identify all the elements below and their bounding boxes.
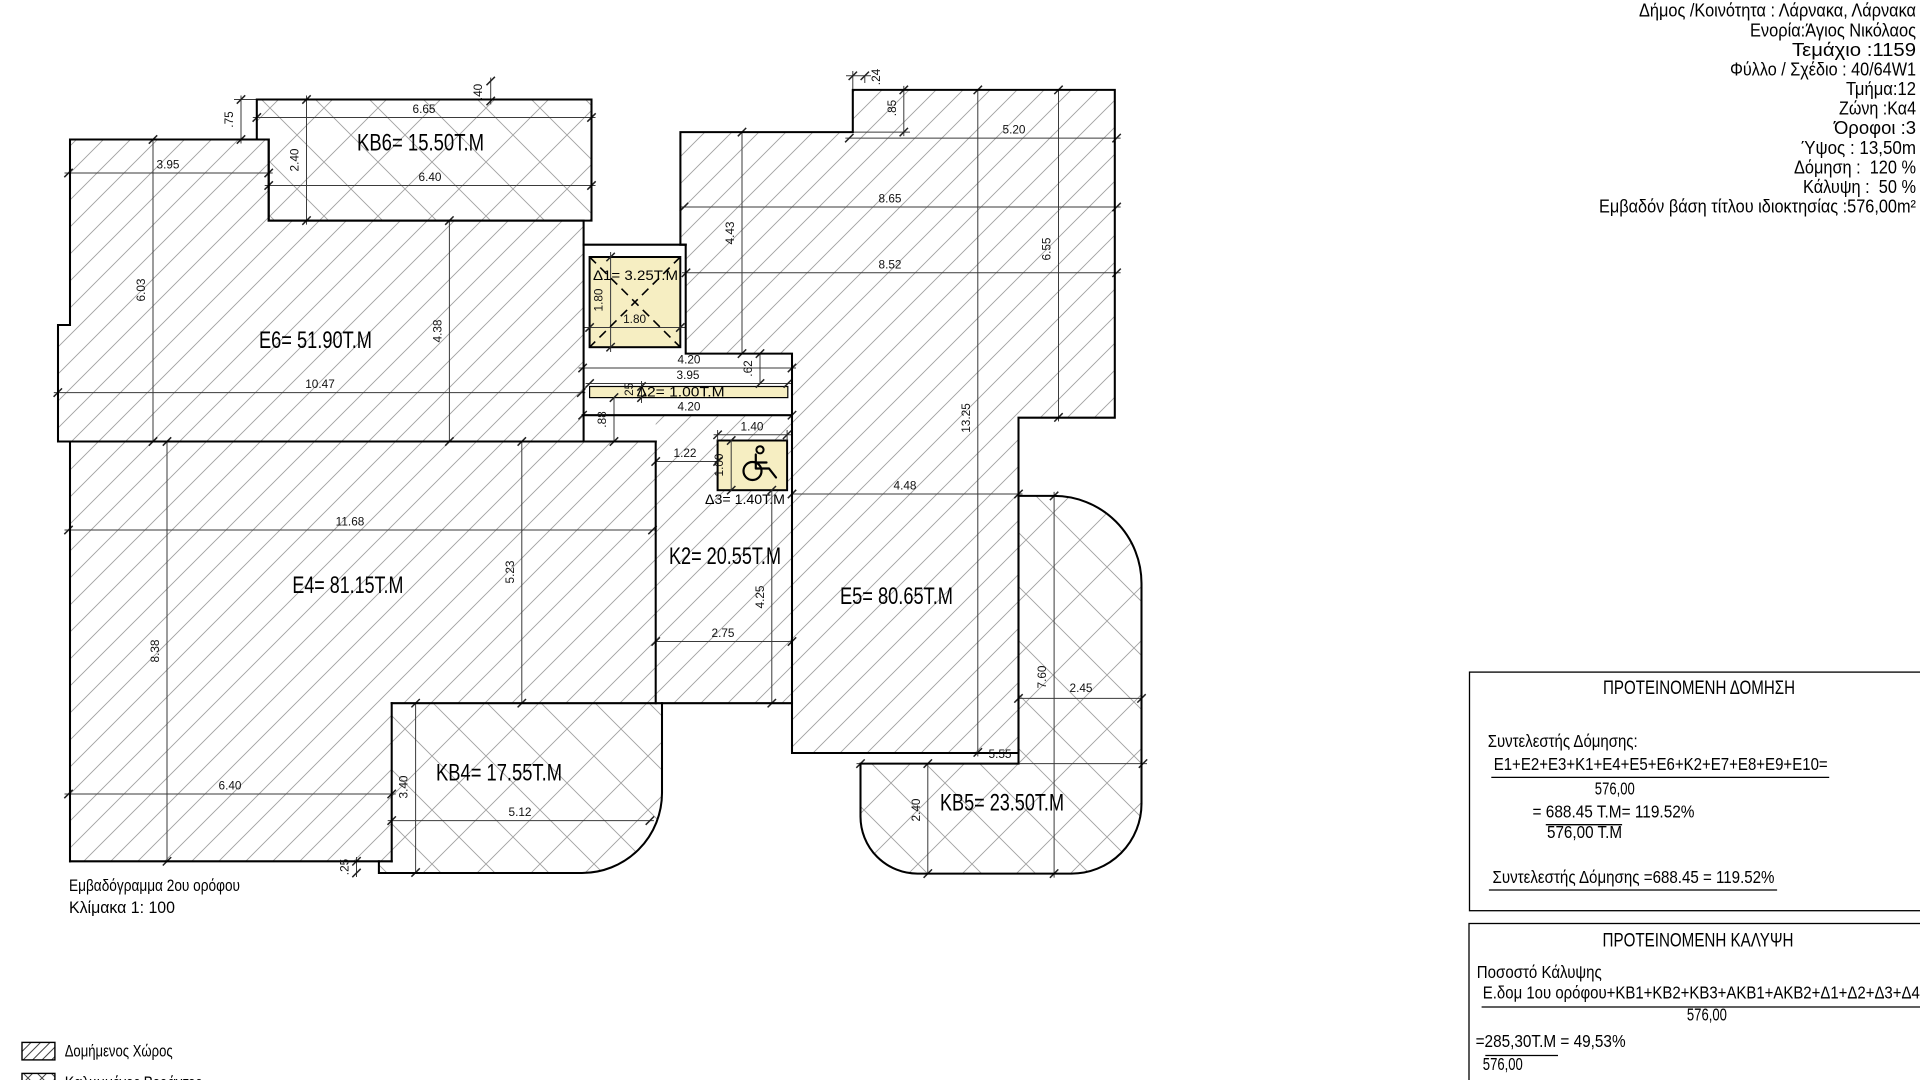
svg-text:3.40: 3.40: [397, 775, 411, 798]
svg-text:Τεμάχιο :1159: Τεμάχιο :1159: [1792, 40, 1916, 60]
room E4 bottom edge: [70, 860, 392, 862]
dim 1.80 horizontal line: [584, 327, 686, 329]
dim 6.40 E4 line: [65, 793, 396, 795]
svg-text:1.00: 1.00: [712, 453, 726, 476]
svg-text:4.20: 4.20: [678, 400, 701, 414]
svg-text:Καλυμμένες Βεράντες: Καλυμμένες Βεράντες: [65, 1073, 202, 1080]
dim 1.40 line: [714, 434, 792, 436]
svg-text:E5= 80.65T.M: E5= 80.65T.M: [840, 583, 953, 610]
dim 3.95 line: [65, 172, 273, 174]
svg-text:5.23: 5.23: [503, 560, 517, 583]
room E4 top edge: [584, 440, 656, 442]
dim .25 D2 line: [641, 381, 643, 403]
svg-text:K2= 20.55T.M: K2= 20.55T.M: [669, 543, 781, 570]
svg-text:576,00: 576,00: [1595, 778, 1635, 798]
svg-text:2.40: 2.40: [288, 148, 302, 171]
dim 1.00 line: [730, 441, 732, 491]
svg-text:8.38: 8.38: [148, 639, 162, 662]
svg-text:1.22: 1.22: [674, 446, 697, 460]
canopy D3 yellow box: [718, 441, 788, 491]
svg-text:Δήμος /Κοινότητα : Λάρνακα, Λά: Δήμος /Κοινότητα : Λάρνακα, Λάρνακα: [1639, 1, 1916, 21]
dim .40 line: [490, 78, 492, 105]
svg-text:3.95: 3.95: [677, 368, 700, 382]
region fills: [58, 90, 1142, 874]
svg-text:4.38: 4.38: [430, 319, 444, 342]
ext line KB6 top-left: [234, 99, 257, 101]
svg-text:3.95: 3.95: [157, 158, 180, 172]
canopy D1 yellow box: [590, 257, 681, 347]
svg-text:E4= 81.15T.M: E4= 81.15T.M: [292, 572, 403, 599]
room E4 hatch: [70, 442, 656, 862]
dim 3.95 D2 line: [586, 383, 792, 385]
svg-text:10.47: 10.47: [305, 377, 335, 391]
dim 6.40 KB6 line: [265, 185, 596, 187]
wheelchair icon in D3: [744, 446, 777, 480]
dim 10.47 line: [54, 392, 586, 394]
svg-text:Δομήμενος Χώρος: Δομήμενος Χώρος: [65, 1042, 173, 1061]
svg-text:KB6= 15.50T.M: KB6= 15.50T.M: [357, 129, 484, 156]
svg-text:.75: .75: [222, 111, 236, 128]
dim 8.52 line: [682, 272, 1121, 274]
room K2 hatch: [656, 415, 792, 703]
svg-text:6.40: 6.40: [219, 779, 242, 793]
svg-text:.25: .25: [622, 382, 636, 399]
svg-text:.88: .88: [595, 411, 609, 428]
svg-text:Ύψος : 13,50m: Ύψος : 13,50m: [1801, 138, 1916, 158]
svg-text:Όροφοι :3: Όροφοι :3: [1833, 118, 1916, 138]
calc boxes: [1469, 672, 1920, 1080]
dim 8.38 line: [166, 442, 168, 862]
veranda KB5 outline: [861, 496, 1142, 874]
ext line .85 base: [853, 131, 910, 133]
svg-text:Συντελεστής Δόμησης =688.45 =: Συντελεστής Δόμησης =688.45 = 119.52%: [1493, 867, 1775, 887]
svg-text:ΠΡΟΤΕΙΝΟΜΕΝΗ ΚΑΛΥΨΗ: ΠΡΟΤΕΙΝΟΜΕΝΗ ΚΑΛΥΨΗ: [1603, 931, 1794, 952]
veranda KB4 outline: [379, 703, 662, 873]
legend built-space swatch: [22, 1042, 55, 1060]
veranda KB6 hatch: [257, 100, 592, 221]
dim .88 line: [613, 398, 615, 442]
svg-text:Δ1= 3.25T.M: Δ1= 3.25T.M: [593, 268, 678, 283]
room E6 hatch: [58, 140, 584, 442]
dim .24 line: [846, 75, 871, 77]
ext lines .24: [853, 71, 865, 90]
dim 4.38 line: [448, 221, 450, 442]
dim 2.40 KB5 line: [927, 764, 929, 874]
svg-text:1.80: 1.80: [592, 288, 606, 311]
svg-text:Ποσοστό Κάλυψης: Ποσοστό Κάλυψης: [1477, 962, 1602, 982]
dim 6.03 line: [152, 140, 154, 442]
svg-text:2.40: 2.40: [909, 798, 923, 821]
svg-text:6.40: 6.40: [419, 170, 442, 184]
svg-text:7.60: 7.60: [1035, 665, 1049, 688]
canopy D1 enclosure top edge: [584, 244, 686, 246]
svg-text:6.03: 6.03: [134, 278, 148, 301]
svg-text:Ζώνη :Κα4: Ζώνη :Κα4: [1839, 99, 1916, 119]
svg-text:11.68: 11.68: [336, 515, 365, 529]
veranda KB6 outline: [257, 100, 592, 221]
svg-text:4.43: 4.43: [723, 221, 737, 244]
svg-text:4.25: 4.25: [753, 585, 767, 608]
corner text block: [1599, 1, 1916, 217]
dim 2.75 line: [656, 641, 792, 643]
canopy D2 yellow strip: [590, 387, 788, 398]
svg-text:E6= 51.90T.M: E6= 51.90T.M: [259, 327, 372, 354]
svg-text:Εμβαδόγραμμα 2ου ορόφου: Εμβαδόγραμμα 2ου ορόφου: [69, 876, 240, 895]
box proposed coverage: [1469, 924, 1920, 1080]
dim 1.22 line: [656, 461, 718, 463]
ticks: [54, 72, 1148, 878]
svg-text:ΠΡΟΤΕΙΝΟΜΕΝΗ ΔΟΜΗΣΗ: ΠΡΟΤΕΙΝΟΜΕΝΗ ΔΟΜΗΣΗ: [1603, 678, 1795, 699]
svg-text:4.48: 4.48: [894, 479, 917, 493]
legend veranda swatch: [22, 1073, 55, 1080]
svg-text:8.52: 8.52: [879, 257, 902, 271]
svg-text:1.80: 1.80: [623, 312, 646, 326]
svg-text:5.20: 5.20: [1003, 123, 1026, 137]
veranda KB4 hatch: [379, 703, 662, 873]
box proposed building coefficient: [1470, 672, 1920, 911]
dim 1.80 vertical line: [610, 252, 612, 352]
svg-text:Δ3= 1.40T.M: Δ3= 1.40T.M: [705, 492, 785, 507]
dim 5.20 line: [845, 137, 1120, 139]
svg-text:Ενορία:Άγιος Νικόλαος: Ενορία:Άγιος Νικόλαος: [1750, 20, 1916, 40]
dim 2.40 line: [306, 96, 308, 225]
svg-text:576,00 T.M: 576,00 T.M: [1547, 822, 1622, 842]
dim .85 line: [903, 86, 905, 136]
svg-text:.25: .25: [338, 858, 352, 875]
svg-text:4.20: 4.20: [678, 353, 701, 367]
svg-text:2.45: 2.45: [1070, 681, 1093, 695]
dim 11.68 line: [65, 529, 657, 531]
svg-text:1.40: 1.40: [741, 419, 764, 433]
svg-text:Δόμηση : 120 %: Δόμηση : 120 %: [1794, 157, 1916, 177]
room K2 top edge: [583, 414, 792, 416]
dim 5.23 line: [521, 442, 523, 704]
dim 4.48 line: [792, 493, 1023, 495]
legend: [22, 1042, 202, 1080]
svg-text:.24: .24: [869, 68, 883, 85]
svg-text:Συντελεστής Δόμησης:: Συντελεστής Δόμησης:: [1488, 731, 1638, 751]
yellow box marks: [590, 257, 776, 480]
svg-text:.40: .40: [471, 83, 485, 100]
svg-text:6.65: 6.65: [413, 102, 436, 116]
svg-text:Τμήμα:12: Τμήμα:12: [1846, 79, 1916, 99]
dim 3.40 line: [415, 703, 417, 872]
dim 13.25 line: [977, 90, 979, 757]
svg-text:5.12: 5.12: [509, 805, 532, 819]
wall K2/KB4 bottom edge: [392, 702, 792, 704]
svg-text:.85: .85: [885, 99, 899, 116]
svg-text:2.75: 2.75: [712, 626, 735, 640]
room E6 outline: [58, 140, 584, 442]
dim .25 step line: [356, 857, 358, 877]
svg-text:576,00: 576,00: [1687, 1004, 1727, 1024]
svg-text:Κάλυψη : 50 %: Κάλυψη : 50 %: [1803, 177, 1916, 197]
ext lines Delta3 top: [718, 430, 788, 441]
svg-text:= 688.45 T.M= 119.52%: = 688.45 T.M= 119.52%: [1533, 801, 1695, 821]
svg-text:KB4= 17.55T.M: KB4= 17.55T.M: [436, 760, 562, 787]
dim 8.65 line: [680, 206, 1121, 208]
dim .75 line: [240, 96, 242, 144]
outlines: [58, 90, 1142, 874]
dimension lines: [54, 71, 1147, 878]
dim .62 line: [759, 354, 761, 384]
svg-text:Φύλλο / Σχέδιο : 40/64W1: Φύλλο / Σχέδιο : 40/64W1: [1730, 60, 1916, 80]
room E4 left edge: [69, 442, 71, 862]
wall E4/KB4 divider: [391, 703, 393, 861]
svg-text:E1+E2+E3+K1+E4+E5+E6+K2+E7+E8+: E1+E2+E3+K1+E4+E5+E6+K2+E7+E8+E9+E10=: [1494, 754, 1828, 774]
dimension tick marks: [54, 72, 1148, 878]
svg-text:5.55: 5.55: [989, 747, 1012, 761]
svg-text:8.65: 8.65: [879, 192, 902, 206]
svg-text:Κλίμακα 1: 100: Κλίμακα 1: 100: [69, 898, 175, 917]
dim 7.60 line: [1053, 492, 1055, 878]
svg-text:13.25: 13.25: [959, 403, 973, 433]
dim 4.43 line: [741, 132, 743, 354]
room E5 and upper-right wing hatch: [680, 90, 1114, 753]
svg-text:.62: .62: [741, 360, 755, 376]
dim 5.55 line: [857, 763, 1148, 765]
svg-text:E.δομ 1ου ορόφου+KB1+KB2+KB3+A: E.δομ 1ου ορόφου+KB1+KB2+KB3+AKB1+AKB2+Δ…: [1483, 983, 1920, 1003]
dim 6.55 line: [1058, 90, 1060, 422]
wall E4/K2 divider: [655, 442, 657, 704]
svg-text:6.55: 6.55: [1040, 237, 1054, 260]
svg-text:Δ2= 1.00T.M: Δ2= 1.00T.M: [637, 385, 725, 400]
svg-text:KB5= 23.50T.M: KB5= 23.50T.M: [940, 789, 1064, 816]
canopy D1 dashed cross: [590, 257, 681, 347]
dim 6.65 line: [253, 117, 596, 119]
room E5 wing outline: [680, 90, 1114, 753]
veranda KB5 hatch: [861, 496, 1142, 874]
svg-text:=285,30T.M = 49,53%: =285,30T.M = 49,53%: [1476, 1031, 1626, 1051]
svg-text:576,00: 576,00: [1483, 1054, 1523, 1074]
dim 4.20 upper line: [579, 367, 796, 369]
dim 2.45 line: [1019, 697, 1142, 699]
dim 4.25 line: [771, 490, 773, 703]
svg-text:Εμβαδόν βάση τίτλου ιδιοκτησία: Εμβαδόν βάση τίτλου ιδιοκτησίας :576,00m…: [1599, 197, 1916, 217]
dim 5.12 line: [388, 820, 654, 822]
yellow boxes fills: [590, 257, 788, 490]
